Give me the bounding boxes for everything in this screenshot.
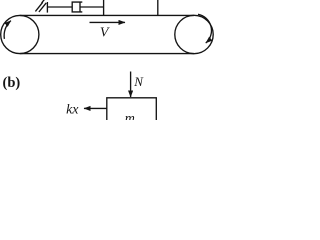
svg-text:m: m: [125, 112, 135, 121]
free body block: [107, 98, 157, 120]
normal force arrow N: [130, 72, 132, 98]
damper rod right: [80, 6, 104, 8]
damper cylinder: [72, 2, 82, 12]
belt bottom line: [20, 53, 194, 55]
wall: [46, 2, 48, 13]
spring force arrow kx: [84, 107, 107, 109]
damper rod left: [47, 6, 72, 8]
damper piston: [79, 2, 81, 12]
left pulley: [1, 15, 39, 53]
left pulley rotation arrow: [4, 21, 11, 39]
wall hatch 2: [39, 3, 46, 12]
right pulley: [175, 15, 213, 53]
belt top line: [20, 14, 194, 16]
block on belt left edge: [103, 0, 105, 15]
svg-text:V: V: [100, 25, 110, 40]
wall hatch 1: [35, 2, 42, 11]
block on belt right edge: [157, 0, 159, 15]
svg-text:(b): (b): [3, 75, 21, 91]
belt velocity arrow V: [90, 21, 126, 23]
right pulley rotation arrow: [198, 14, 212, 43]
wall hatch 3: [42, 0, 46, 3]
svg-text:N: N: [133, 74, 144, 89]
svg-text:kx: kx: [66, 103, 79, 118]
